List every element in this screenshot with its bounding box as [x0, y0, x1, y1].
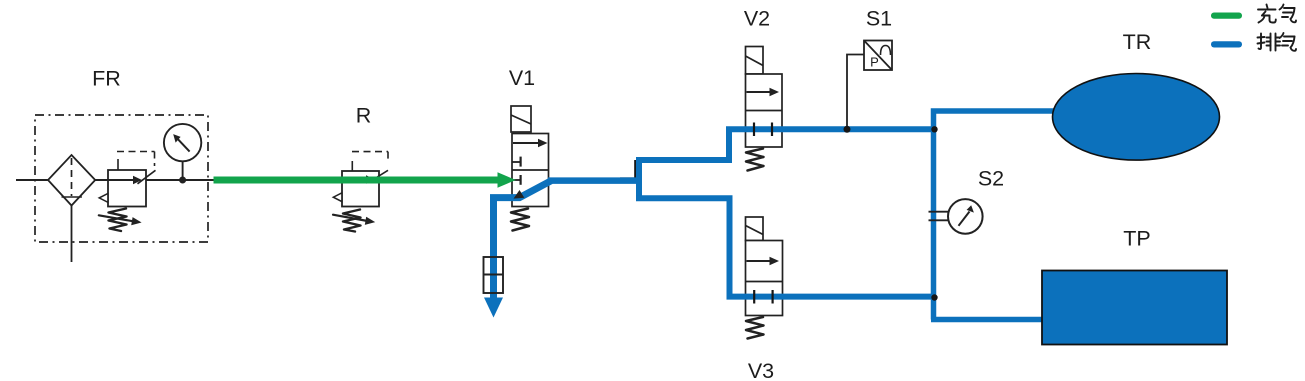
legend text 排气 — [1258, 33, 1297, 51]
glyph qi — [1280, 5, 1297, 23]
pressure gauge S2 — [929, 199, 983, 234]
wire blue main V1 to fork — [548, 177, 639, 184]
wire blue upper branch to V2 — [636, 129, 935, 160]
tank TR ellipse — [1053, 74, 1220, 161]
regulator R pilot dashed box — [352, 152, 388, 183]
glyph pai — [1258, 34, 1281, 51]
wire blue lower branch to V3 — [636, 198, 936, 296]
valve V1 blocked port T lower stem — [512, 179, 520, 181]
valve V2 solenoid — [746, 47, 764, 75]
wire blue exhaust from V1 to silencer — [494, 181, 552, 299]
svg-text:TP: TP — [1123, 227, 1150, 251]
svg-text:S2: S2 — [978, 167, 1004, 191]
wire regulator to enclosure edge — [146, 179, 214, 181]
glyph qi2 — [1280, 33, 1297, 51]
regulator FR adjusting spring with arrow — [99, 209, 142, 232]
tank TP rectangle — [1042, 271, 1227, 345]
wire S1 to line — [847, 55, 864, 129]
wire blue right vertical — [934, 111, 1057, 320]
valve V3 blocked port T bars — [754, 290, 772, 304]
valve V1 return spring — [511, 209, 529, 231]
valve V1 blocked port T lower bar — [519, 175, 521, 185]
valve V2 blocked port T bars — [754, 123, 772, 137]
regulator FR relief triangle — [99, 194, 108, 203]
valve V2 return spring — [746, 149, 764, 171]
exhaust blue arrowhead — [484, 298, 503, 318]
legend blue swatch — [1211, 41, 1242, 47]
valve V3 return spring — [746, 317, 764, 339]
valve V1 exhaust arrowhead black — [514, 190, 525, 199]
valve V1 solenoid — [511, 106, 531, 132]
valve V3 body — [746, 241, 783, 316]
valve V1 position-1 flow arrow — [513, 139, 548, 148]
regulator FR box — [108, 170, 146, 207]
pressure gauge on FR — [164, 124, 201, 179]
node right bottom junction dot — [931, 294, 937, 300]
valve V2 body — [746, 74, 783, 147]
svg-text:FR: FR — [92, 67, 121, 91]
filter F diamond — [48, 155, 95, 206]
svg-text:S1: S1 — [866, 7, 892, 31]
regulator R box — [342, 171, 379, 207]
node fork vertical — [636, 158, 642, 202]
glyph chong — [1258, 5, 1276, 23]
regulator FR flow arrow — [109, 176, 143, 185]
svg-text:V3: V3 — [748, 359, 774, 381]
green arrowhead at V1 — [498, 172, 516, 187]
filter drain line — [71, 206, 73, 263]
svg-text:V1: V1 — [509, 66, 535, 90]
wire blue to TP — [931, 317, 1044, 323]
supply line (left inlet) — [16, 179, 48, 181]
svg-text:P: P — [870, 55, 879, 70]
FR enclosure dash-dot box — [35, 115, 208, 242]
node right top junction dot — [931, 126, 937, 132]
node FR gauge junction — [179, 177, 186, 184]
legend text 充气 — [1258, 5, 1296, 23]
node fork elbow (black under blue) — [620, 160, 635, 182]
legend green swatch — [1211, 13, 1242, 19]
silencer body — [484, 257, 504, 293]
svg-text:V2: V2 — [744, 7, 770, 31]
pressure switch S1 box — [864, 41, 892, 71]
regulator FR pilot dashed box — [117, 152, 156, 184]
regulator R adjusting spring with arrow — [333, 210, 375, 232]
valve V1 body — [512, 134, 549, 207]
regulator R relief triangle — [333, 193, 342, 202]
valve V1 blocked port T upper — [512, 157, 521, 167]
green charge line — [214, 177, 500, 184]
valve V2 flow arrow — [747, 88, 780, 97]
svg-text:R: R — [356, 104, 372, 128]
valve V3 solenoid — [746, 217, 764, 241]
valve V3 flow arrow — [747, 257, 780, 266]
node S1 junction dot — [844, 126, 851, 133]
svg-text:TR: TR — [1123, 30, 1152, 54]
wire diamond to regulator — [95, 179, 108, 181]
